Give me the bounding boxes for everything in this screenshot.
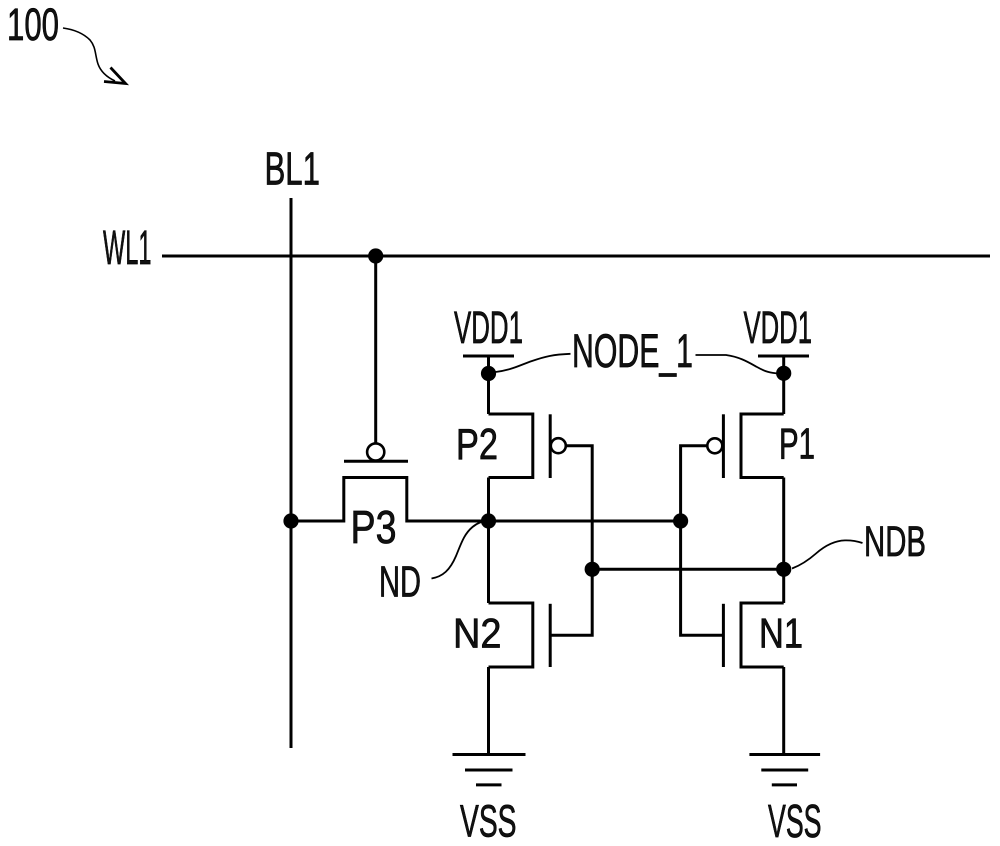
svg-text:N1: N1: [759, 609, 803, 656]
svg-text:P3: P3: [351, 501, 397, 553]
svg-text:VDD1: VDD1: [744, 302, 813, 353]
svg-text:BL1: BL1: [265, 143, 321, 195]
svg-text:ND: ND: [379, 559, 421, 607]
svg-text:N2: N2: [453, 609, 502, 656]
svg-text:P1: P1: [779, 420, 815, 469]
svg-text:VDD1: VDD1: [454, 302, 523, 353]
svg-text:NODE_1: NODE_1: [572, 324, 693, 377]
svg-text:VSS: VSS: [768, 795, 822, 846]
svg-text:VSS: VSS: [460, 796, 517, 846]
svg-text:WL1: WL1: [103, 221, 152, 275]
svg-text:100: 100: [7, 0, 59, 50]
svg-text:NDB: NDB: [864, 518, 926, 566]
svg-text:P2: P2: [456, 421, 498, 469]
